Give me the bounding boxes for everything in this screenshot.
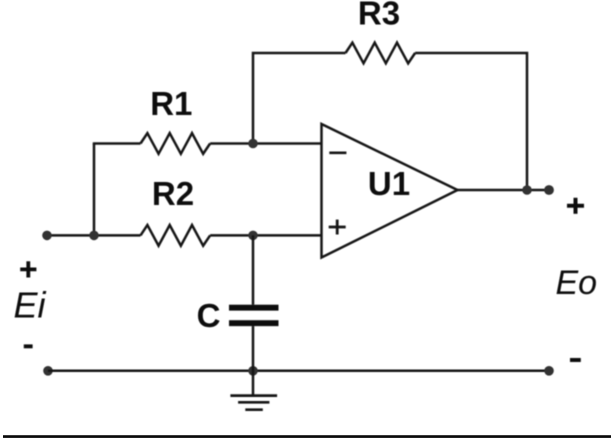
- terminal dot Ei -: [43, 366, 53, 376]
- svg-text:R1: R1: [150, 85, 192, 122]
- svg-text:Ei: Ei: [14, 285, 47, 326]
- ground: [230, 371, 277, 410]
- wire: C bottom plate down to bottom rail: [252, 326, 255, 371]
- capacitor C: [229, 305, 279, 326]
- junction node B (R2 / C / non-inverting input): [248, 231, 258, 241]
- label - (Ei negative): [24, 344, 33, 348]
- wire: bottom rail: [48, 370, 549, 373]
- label + (Eo positive): [567, 198, 584, 214]
- resistor R3: [346, 43, 416, 64]
- junction: output / R3 feedback: [522, 185, 532, 195]
- label - (Eo negative): [570, 358, 581, 362]
- junction node A (R1 / R3 / inverting input): [248, 139, 258, 149]
- junction: Ei+ / R1 branch: [89, 231, 99, 241]
- wire: Ei+ terminal to R2 left lead: [47, 234, 141, 237]
- svg-text:Eo: Eo: [556, 264, 598, 302]
- op-amp U1: [322, 124, 458, 258]
- op-amp inverting input marker -: [329, 152, 346, 155]
- terminal dot Ei +: [42, 231, 52, 241]
- wire: left lead of R1: [93, 142, 141, 145]
- label + (Ei positive): [20, 261, 36, 277]
- wire: R3 right lead down to output node: [415, 53, 527, 190]
- svg-text:C: C: [197, 297, 221, 334]
- svg-text:U1: U1: [368, 165, 410, 202]
- wire: op-amp output to Eo+ terminal: [458, 189, 550, 192]
- wire: branch vertical from R1 left lead down to R2 wire: [93, 144, 96, 236]
- wire: R2 to non-inverting input through node B: [210, 234, 321, 237]
- wire: node A up and across to R3 left lead: [253, 53, 346, 145]
- wire: node B down to C top plate: [252, 235, 255, 304]
- resistor R2: [141, 225, 211, 246]
- svg-text:R2: R2: [152, 175, 194, 212]
- wire: R1 to inverting input through node A: [210, 142, 321, 145]
- resistor R1: [141, 133, 211, 154]
- terminal dot Eo -: [544, 366, 554, 376]
- op-amp non-inverting input marker +: [329, 220, 346, 235]
- terminal dot Eo +: [544, 185, 554, 195]
- junction: C / ground on bottom rail: [248, 366, 258, 376]
- svg-text:R3: R3: [358, 0, 400, 31]
